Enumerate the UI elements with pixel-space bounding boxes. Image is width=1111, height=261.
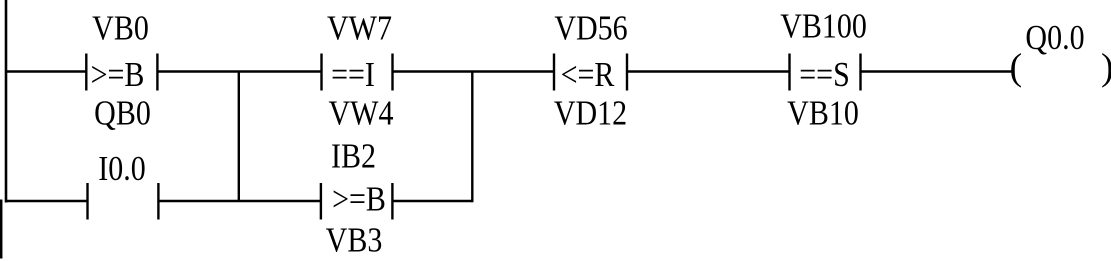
svg-text:>=B: >=B (91, 55, 145, 93)
left power rail (upper segment) (5, 0, 8, 203)
wire rung1 rail to contact1 (6, 70, 86, 72)
svg-text:VW7: VW7 (327, 9, 392, 47)
svg-text:==I: ==I (331, 55, 375, 93)
label IB2 (C5 top operand) (331, 137, 376, 175)
label VB3 (C5 bottom operand) (326, 221, 383, 259)
wire rung1 contact2 to contact3 (393, 70, 555, 72)
label Q0.0 (coil operand) (1025, 18, 1084, 56)
wire rung2 contact I0.0 to contact C5 (158, 200, 321, 202)
svg-text:<=R: <=R (561, 55, 615, 93)
compare contact C1 >=B (VB0,QB0) (86, 54, 157, 94)
label VW4 (C2 bottom operand) (329, 94, 394, 132)
svg-text:VD12: VD12 (554, 94, 627, 132)
wire rung2 contact C5 to node B (392, 200, 472, 202)
wire rung2 rail to contact I0.0 (6, 200, 88, 202)
svg-text:VB3: VB3 (326, 221, 383, 259)
svg-text:IB2: IB2 (331, 137, 376, 175)
svg-text:VD56: VD56 (554, 9, 627, 47)
svg-text:VB10: VB10 (787, 94, 859, 132)
label VD56 (C3 top operand) (554, 9, 627, 47)
svg-text:Q0.0: Q0.0 (1025, 18, 1084, 56)
node B branch wire (junction between C2 and C3 down to rung2) (471, 72, 473, 203)
compare contact C4 ==S (VB100,VB10) (790, 54, 861, 94)
output coil Q0.0 (1010, 47, 1111, 89)
label VW7 (C2 top operand) (327, 9, 392, 47)
label VD12 (C3 bottom operand) (554, 94, 627, 132)
compare contact C3 <=R (VD56,VD12) (554, 54, 627, 94)
label I0.0 (98, 149, 145, 187)
svg-text:VB100: VB100 (780, 7, 867, 45)
svg-text:>=B: >=B (332, 180, 386, 218)
node A branch wire (junction between C1 and C2 down to rung2) (238, 72, 240, 202)
svg-text:VW4: VW4 (329, 94, 394, 132)
svg-text:==S: ==S (799, 55, 850, 93)
svg-text:): ) (1101, 47, 1111, 89)
svg-text:(: ( (1010, 47, 1023, 89)
label VB10 (C4 bottom operand) (787, 94, 859, 132)
wire rung1 contact3 to contact4 (627, 70, 790, 72)
compare contact C5 >=B (IB2,VB3) (321, 180, 393, 220)
label QB0 (C1 bottom operand) (94, 94, 151, 132)
wire rung1 contact1 to contact2 (157, 70, 321, 72)
label VB100 (C4 top operand) (780, 7, 867, 45)
svg-text:I0.0: I0.0 (98, 149, 145, 187)
wire rung1 contact4 to coil (861, 70, 1015, 72)
svg-text:QB0: QB0 (94, 94, 151, 132)
NO contact I0.0 (88, 183, 159, 220)
label VB0 (C1 top operand) (92, 9, 149, 47)
svg-text:VB0: VB0 (92, 9, 149, 47)
compare contact C2 ==I (VW7,VW4) (322, 54, 393, 94)
left power rail (lower segment, offset left) (0, 200, 2, 259)
